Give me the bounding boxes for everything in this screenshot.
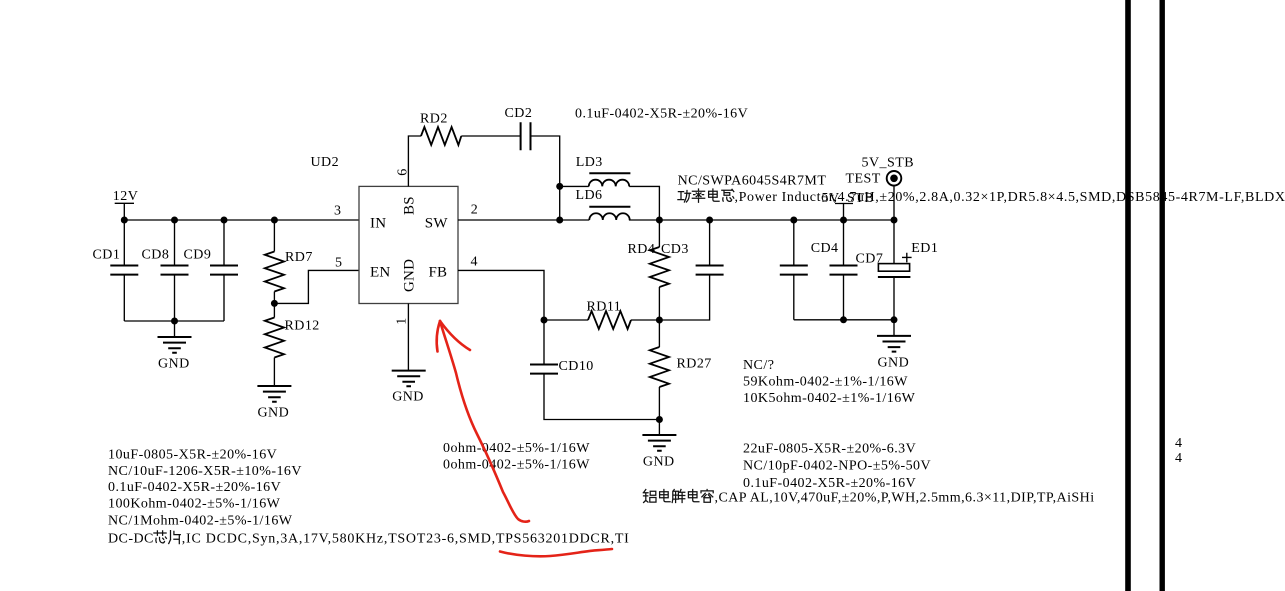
annotation red arrow tail (440, 321, 529, 522)
sheet border line 1 (1125, 0, 1131, 591)
svg-text:5V_STB: 5V_STB (862, 156, 915, 171)
value text left line 6 DC-DC chip description (108, 531, 630, 547)
svg-text:4: 4 (471, 255, 478, 270)
inductor LD6 (576, 188, 631, 220)
svg-text:BS: BS (402, 196, 418, 215)
value text inductor description CJK + latin (678, 189, 1285, 205)
junction BS-cap / LD3 branch (556, 183, 563, 190)
junction 12V/RD7 (271, 217, 278, 224)
capacitor CD4 (780, 220, 839, 320)
junction RD7/RD12/EN (271, 300, 278, 307)
svg-text:100Kohm-0402-±5%-1/16W: 100Kohm-0402-±5%-1/16W (108, 497, 281, 512)
wire CD2 to SW node (531, 136, 560, 220)
annotation red arrow left barb (437, 321, 440, 352)
svg-text:LD6: LD6 (576, 188, 603, 203)
svg-text:IN: IN (370, 215, 386, 231)
svg-text:LD3: LD3 (576, 155, 603, 170)
wire ground rail under CD1 CD8 CD9 (124, 320, 224, 322)
annotation red underline TPS563201DDCR (500, 549, 612, 556)
inductor LD3 (NC alternate) (560, 155, 660, 220)
ground under ED1 (877, 320, 911, 371)
wire SW net (458, 219, 894, 221)
svg-text:RD27: RD27 (677, 357, 712, 372)
svg-text:GND: GND (643, 455, 675, 470)
junction ground rail (171, 318, 178, 325)
junction 12V/CD9 (221, 217, 228, 224)
svg-text:1: 1 (394, 317, 409, 324)
wire pin 1 to ground (407, 304, 409, 371)
wire pin 6 to RD2 (408, 136, 421, 186)
resistor RD2 (420, 112, 461, 146)
svg-text:CD1: CD1 (93, 248, 121, 263)
svg-text:RD2: RD2 (420, 112, 448, 127)
wire output ground rail (794, 319, 894, 321)
svg-text:3: 3 (334, 204, 341, 219)
svg-text:NC/1Mohm-0402-±5%-1/16W: NC/1Mohm-0402-±5%-1/16W (108, 514, 293, 529)
wire 12V net to pin IN (124, 219, 359, 221)
junction SW/LD3 right (656, 217, 663, 224)
svg-text:GND: GND (158, 357, 190, 372)
svg-text:EN: EN (370, 265, 390, 281)
svg-text:GND: GND (878, 355, 910, 370)
ground under input caps (158, 321, 192, 372)
junction 12V/CD1 (121, 217, 128, 224)
svg-text:FB: FB (429, 265, 448, 281)
svg-text:NC/10pF-0402-NPO-±5%-50V: NC/10pF-0402-NPO-±5%-50V (743, 459, 931, 474)
capacitor CD7 (830, 220, 884, 320)
svg-text:12V: 12V (113, 189, 138, 204)
svg-text:NC/SWPA6045S4R7MT: NC/SWPA6045S4R7MT (678, 174, 827, 189)
svg-text:,CAP AL,10V,470uF,±20%,P,WH,2.: ,CAP AL,10V,470uF,±20%,P,WH,2.5mm,6.3×11… (715, 491, 1095, 506)
svg-text:SW: SW (425, 215, 449, 231)
svg-text:GND: GND (392, 390, 424, 405)
svg-text:4: 4 (1175, 451, 1182, 466)
svg-text:NC/10uF-1206-X5R-±10%-16V: NC/10uF-1206-X5R-±10%-16V (108, 464, 302, 479)
svg-text:0ohm-0402-±5%-1/16W: 0ohm-0402-±5%-1/16W (443, 441, 590, 456)
capacitor ED1 electrolytic (878, 220, 938, 320)
svg-text:CD10: CD10 (559, 359, 594, 374)
resistor RD27 (650, 320, 712, 420)
junction SW/CD7/5V_STB (840, 217, 847, 224)
junction FB divider node (656, 317, 663, 324)
capacitor CD8 (142, 220, 189, 321)
svg-text:0.1uF-0402-X5R-±20%-16V: 0.1uF-0402-X5R-±20%-16V (575, 107, 748, 122)
svg-text:22uF-0805-X5R-±20%-6.3V: 22uF-0805-X5R-±20%-6.3V (743, 442, 916, 457)
svg-text:0.1uF-0402-X5R-±20%-16V: 0.1uF-0402-X5R-±20%-16V (108, 480, 281, 495)
svg-text:UD2: UD2 (311, 155, 340, 170)
svg-text:10K5ohm-0402-±1%-1/16W: 10K5ohm-0402-±1%-1/16W (743, 391, 916, 406)
svg-text:,Power Inductor,4.7uH,±20%,2.8: ,Power Inductor,4.7uH,±20%,2.8A,0.32×1P,… (735, 190, 1285, 205)
junction rail/CD7 (840, 316, 847, 323)
resistor RD7 (265, 220, 313, 303)
capacitor C3 ref CD2 (505, 106, 533, 150)
resistor RD4 (628, 220, 670, 320)
capacitor CD3 (659, 220, 723, 320)
svg-text:NC/?: NC/? (743, 358, 774, 373)
svg-text:,IC DCDC,Syn,3A,17V,580KHz,TSO: ,IC DCDC,Syn,3A,17V,580KHz,TSOT23-6,SMD,… (182, 532, 630, 547)
sheet border line 2 (1160, 0, 1165, 591)
junction FB/CD10/RD11 (541, 317, 548, 324)
ground under RD27 (642, 420, 676, 470)
junction SW/CD4 (790, 217, 797, 224)
svg-text:CD4: CD4 (811, 241, 839, 256)
svg-text:CD3: CD3 (661, 242, 689, 257)
svg-text:59Kohm-0402-±1%-1/16W: 59Kohm-0402-±1%-1/16W (743, 375, 908, 390)
junction SW/ED1/TEST (891, 217, 898, 224)
capacitor CD1 (93, 220, 139, 321)
svg-text:4: 4 (1175, 436, 1182, 451)
svg-text:RD11: RD11 (587, 300, 622, 315)
capacitor CD10 (530, 320, 659, 420)
svg-text:5: 5 (335, 256, 342, 271)
svg-text:GND: GND (402, 259, 418, 292)
power symbol 12V (113, 189, 138, 220)
svg-text:RD7: RD7 (285, 250, 313, 265)
wire EN net (274, 270, 359, 303)
resistor RD12 (265, 303, 320, 386)
capacitor CD9 (184, 220, 239, 321)
junction CD10/RD27/gnd (656, 416, 663, 423)
svg-text:CD8: CD8 (142, 248, 170, 263)
power symbol 5V_STB net tie (822, 191, 875, 220)
svg-text:ED1: ED1 (911, 241, 938, 256)
wire RD2 to CD2 (461, 135, 520, 137)
svg-text:0ohm-0402-±5%-1/16W: 0ohm-0402-±5%-1/16W (443, 458, 590, 473)
svg-text:RD4: RD4 (628, 242, 656, 257)
ground under RD12 (257, 386, 291, 421)
value text electrolytic description CJK + latin (643, 490, 1094, 506)
junction SW/vertical (556, 217, 563, 224)
op-amp U1 ic UD2 TPS563201 body (311, 155, 459, 304)
junction SW/CD3 (706, 217, 713, 224)
svg-text:DC-DC: DC-DC (108, 532, 154, 547)
junction 12V/CD8 (171, 217, 178, 224)
junction rail/ED1 (891, 316, 898, 323)
svg-text:CD9: CD9 (184, 248, 212, 263)
svg-text:RD12: RD12 (285, 319, 320, 334)
svg-text:2: 2 (471, 203, 478, 218)
svg-text:TEST: TEST (846, 171, 881, 186)
svg-text:GND: GND (258, 406, 290, 421)
svg-text:CD2: CD2 (505, 106, 533, 121)
svg-text:10uF-0805-X5R-±20%-16V: 10uF-0805-X5R-±20%-16V (108, 448, 277, 463)
test point TEST 5V_STB (846, 156, 915, 221)
annotation red arrow right barb (440, 321, 470, 350)
ground under chip pin 1 (392, 371, 426, 405)
resistor RD11 (544, 300, 659, 330)
svg-text:0.1uF-0402-X5R-±20%-16V: 0.1uF-0402-X5R-±20%-16V (743, 476, 916, 491)
wire FB net (458, 270, 544, 320)
